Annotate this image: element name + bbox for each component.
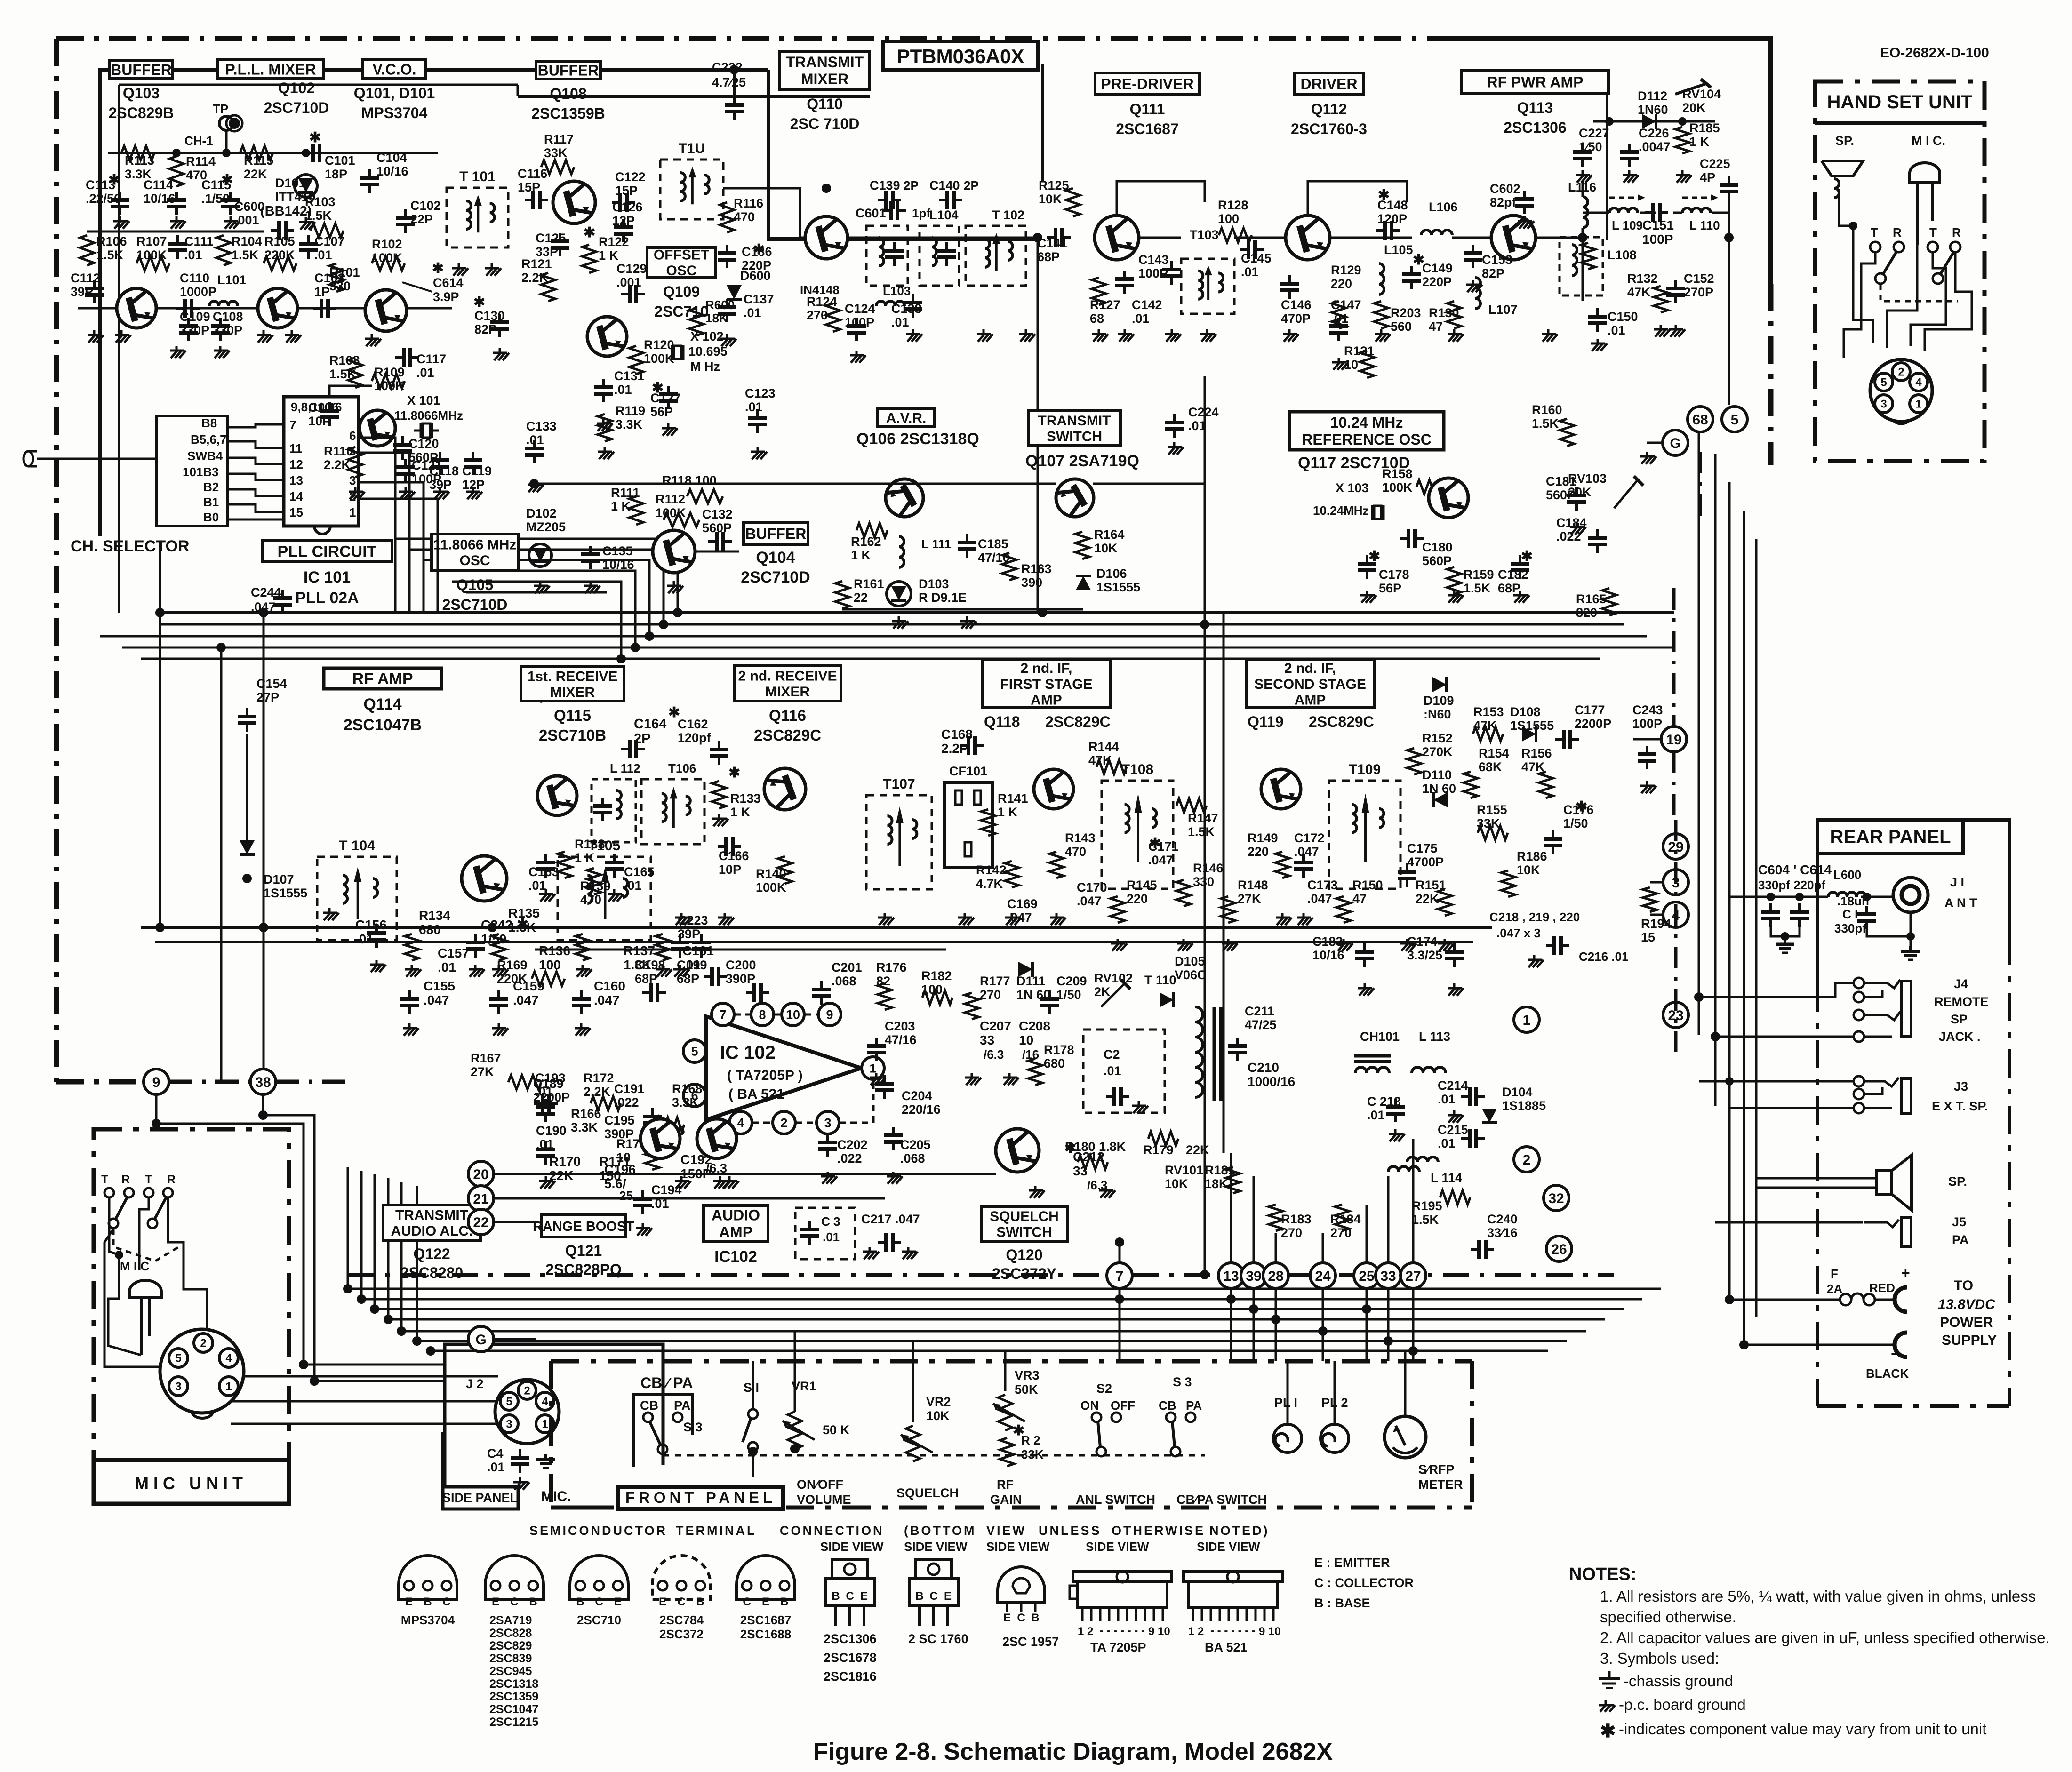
svg-text:R144: R144 [1088,740,1119,754]
label D102 [526,506,566,534]
svg-text:330P: 330P [180,323,209,337]
diode D104 [1482,1109,1497,1123]
svg-text:/6.3: /6.3 [984,1047,1004,1062]
svg-text:.01: .01 [1367,1108,1385,1122]
wire cap join [1771,925,1800,936]
terminal G [468,1326,494,1352]
svg-text:PA: PA [674,1398,691,1413]
label R171 [599,1154,631,1183]
pcb ground symbol [1599,1700,1615,1712]
svg-text:.01: .01 [614,383,632,397]
label C129 [616,262,647,289]
svg-text:T 101: T 101 [459,169,496,184]
svg-text:C: C [595,1596,603,1608]
wire pin dash7 [804,1014,818,1016]
wire rf vert [1582,181,1584,197]
junction [343,1284,352,1293]
wire r194 links [1650,882,1663,915]
label 2SC1306 group [824,1632,877,1684]
svg-text:C184: C184 [1556,516,1587,530]
wire to J4a [1699,983,1853,997]
svg-text:.047 x 3: .047 x 3 [1496,926,1541,940]
svg-text:C154: C154 [256,677,287,691]
mic capsule [129,1280,161,1355]
capacitor C155 [400,990,419,1014]
label R110 [324,444,353,472]
svg-text:R: R [121,1173,130,1186]
ground chassis [1776,939,1794,953]
label R174 [616,1137,647,1165]
ground [1466,280,1482,292]
svg-text:C153: C153 [1482,253,1512,267]
svg-text:1 K: 1 K [1689,135,1710,149]
svg-text:E : EMITTER: E : EMITTER [1314,1556,1390,1570]
resistor R111 [629,496,643,525]
svg-text:1.5K: 1.5K [96,248,124,262]
resistor R151 [1438,889,1452,916]
svg-text:100P: 100P [1642,232,1673,247]
resistor R164 [1075,532,1089,559]
junction [397,1326,406,1336]
label C121 [412,458,442,486]
wire d112 row [1593,120,1715,123]
label R108 [329,353,360,381]
junction [1115,1294,1124,1304]
wire bus [417,1340,1567,1342]
label R119 [616,404,645,431]
svg-text:7: 7 [719,1008,726,1022]
svg-text:1 2: 1 2 [1188,1625,1204,1638]
capacitor C227 [1573,144,1592,167]
svg-text:−: − [1891,1345,1900,1362]
svg-text:R167: R167 [471,1051,501,1065]
ground [115,330,131,343]
block label RANGE BOOST [533,1215,634,1278]
label C173 [1307,878,1338,906]
svg-text:.01: .01 [891,315,909,329]
svg-text:SIDE VIEW: SIDE VIEW [986,1540,1050,1554]
capacitor C184 [1588,529,1607,553]
svg-text:IC102: IC102 [714,1248,757,1266]
svg-text:R195: R195 [1412,1199,1442,1213]
svg-text:1N 60: 1N 60 [1422,782,1456,796]
wire term7 up [1119,1242,1121,1263]
svg-text:SEMICONDUCTOR: SEMICONDUCTOR [529,1524,667,1538]
ground [1111,939,1127,951]
svg-text:NOTED): NOTED) [1209,1524,1270,1538]
junction [1795,893,1804,901]
label C213 [1367,1094,1401,1122]
terminal 32 [1544,1185,1569,1211]
handset title underline [1815,121,1984,125]
svg-text:C155: C155 [424,979,455,993]
svg-text:P.L.L. MIXER: P.L.L. MIXER [225,61,316,78]
svg-text:220: 220 [1331,277,1352,291]
svg-text:2SC1760-3: 2SC1760-3 [1291,120,1367,137]
label C209 [1056,974,1087,1002]
ground [1050,913,1066,925]
capacitor C185 [958,534,976,558]
capacitor C204 [875,1075,894,1099]
svg-text:13: 13 [1223,1269,1239,1284]
junction [426,1346,435,1356]
svg-text:22K: 22K [244,167,267,181]
diode D109 [1432,677,1447,692]
svg-text:R149: R149 [1248,831,1278,845]
svg-text:R138: R138 [575,837,605,851]
svg-text:C : COLLECTOR: C : COLLECTOR [1314,1576,1414,1590]
wire chsel-ic101 [227,474,284,480]
diode D106 [1076,576,1091,590]
svg-text:R117: R117 [544,132,574,146]
svg-text:19: 19 [1666,732,1681,748]
inductor L110 [1682,208,1711,213]
pcb inner border step [768,70,1038,239]
svg-text:IC 102: IC 102 [720,1042,776,1063]
capacitor C225 [1720,176,1738,200]
svg-text:R153: R153 [1473,705,1504,719]
label R101 [329,265,360,293]
switch lever2 [154,1197,166,1220]
label C155 [424,979,455,1007]
wire mic 2 [108,1255,141,1355]
svg-text:C189: C189 [533,1077,564,1091]
junction [357,1294,366,1304]
switch contact [1870,242,1880,252]
svg-text:.01: .01 [823,1230,840,1244]
svg-text:C132: C132 [702,507,733,521]
package 2SC1687 [736,1556,795,1608]
terminal 68 [1688,407,1713,432]
wire t20 run [494,1173,996,1175]
resistor R179 [1148,1132,1178,1146]
svg-text:TO: TO [1954,1278,1973,1293]
label R148 [1238,878,1268,906]
resistor R182 [922,990,952,1005]
svg-text:10.695: 10.695 [688,344,728,359]
svg-text:C164: C164 [634,717,666,732]
svg-text:MPS3704: MPS3704 [401,1613,455,1627]
label C214 [1438,1078,1468,1106]
transistor Q119 [1261,769,1301,809]
inductor L101 [209,301,238,306]
label C199 [677,958,707,986]
label C159 [513,979,544,1007]
svg-text:L 110: L 110 [1689,218,1720,232]
resistor R161 [835,581,849,608]
capacitor C131 [594,379,613,402]
capacitor C243 [1638,746,1656,769]
label C165 [624,865,655,893]
label C168 [941,727,973,756]
terminal link dash [1674,820,1678,1052]
label C226 [1639,126,1671,154]
ground [576,965,592,977]
label R164 [1094,527,1125,555]
svg-text:J I: J I [1950,875,1964,889]
svg-text:AUDIO ALC.: AUDIO ALC. [391,1223,473,1239]
pin IC102-3 [816,1111,839,1134]
label D106 [1096,567,1140,594]
wire ic101 top [329,386,372,397]
svg-text:SECOND STAGE: SECOND STAGE [1254,677,1366,692]
label C154 [256,677,287,704]
plug positive [1895,1287,1907,1312]
svg-text:9: 9 [152,1075,160,1090]
pot VR2 [901,1426,933,1461]
switch contact [1894,242,1904,252]
transformer T103 [1181,259,1234,314]
svg-text:9 10: 9 10 [1259,1625,1281,1638]
resistor R139 [587,868,601,894]
svg-text:SIDE VIEW: SIDE VIEW [820,1540,884,1554]
svg-text:12: 12 [289,457,303,471]
svg-text:100K: 100K [1382,480,1413,495]
svg-text:2200P: 2200P [1575,717,1611,731]
capacitor C244 [273,590,292,613]
wire pin dash5 [734,1014,751,1016]
wire to SP2 [1756,1187,1877,1189]
wire receive bottom rail [141,926,1492,929]
svg-text:2SC1816: 2SC1816 [824,1669,877,1684]
label C227 [1579,126,1609,154]
svg-text:68P: 68P [635,972,657,986]
svg-text:.047: .047 [1077,894,1102,908]
label R124 [807,295,837,322]
ground [170,346,186,358]
svg-text:2SC1047: 2SC1047 [489,1703,538,1716]
svg-text:.01: .01 [438,960,456,974]
svg-text:MIXER: MIXER [801,71,848,88]
junction [822,184,831,193]
transistor Q107 [1056,479,1094,517]
svg-text:5: 5 [506,1396,512,1408]
ground [850,351,866,363]
svg-text:680: 680 [1044,1056,1065,1070]
junction [1724,233,1734,242]
ground [1099,1186,1115,1198]
svg-text:.047: .047 [1148,853,1173,867]
svg-text:C177: C177 [1575,703,1605,717]
svg-text:C190: C190 [536,1124,567,1138]
block label 2nd IF FIRST STAGE AMP [983,660,1110,708]
svg-text:M Hz: M Hz [690,359,720,374]
capacitor C600 [271,221,294,240]
transistor Q122 [640,1119,680,1158]
capacitor C108 [211,318,230,341]
side panel label box [442,1487,518,1509]
pin 4 [219,1349,238,1367]
ground [821,1172,837,1184]
wire q111 out [1139,237,1181,239]
wire q110 base [723,188,805,238]
ground [469,965,485,977]
svg-text:330pf 220pf: 330pf 220pf [1758,878,1825,892]
svg-text:330P: 330P [213,323,242,337]
svg-text:5: 5 [349,444,356,458]
svg-text:CB: CB [1159,1398,1176,1413]
label R132 [1627,271,1658,299]
handset mic [1910,163,1940,245]
label R129 [1331,263,1361,291]
capacitor C199 [704,967,727,986]
mic unit border [94,1129,289,1504]
junction [1115,1237,1124,1247]
resistor R194 [1643,887,1657,912]
svg-text:B: B [915,1590,923,1603]
switch S2 [1092,1413,1121,1456]
ground [906,329,922,342]
resistor R176 [878,983,892,1010]
label C191 [614,1082,645,1109]
svg-text:2SC1047B: 2SC1047B [344,716,422,734]
resistor R162 [856,523,888,537]
label R122 [599,235,629,263]
svg-text:C146: C146 [1281,298,1312,312]
svg-text:D112: D112 [1638,89,1667,103]
wire vert avr [1037,239,1039,613]
ground [977,329,993,342]
capacitor C602 [1515,191,1534,214]
resistor R130 [1447,301,1461,328]
svg-text:C205: C205 [900,1138,931,1152]
resistor R169 [532,972,565,986]
svg-text:B: B [529,1596,537,1608]
svg-text:R185: R185 [1689,121,1720,135]
svg-text:Q101, D101: Q101, D101 [354,85,435,102]
label C4 [487,1446,505,1474]
pcb inner border right [1041,64,1044,181]
label S/RFP METER [1418,1462,1463,1492]
block label TRANSMIT MIXER [780,51,870,132]
svg-text:T103: T103 [1190,228,1219,242]
svg-text:C169: C169 [1007,897,1038,911]
svg-text:Q118: Q118 [984,713,1020,730]
svg-text:AMP: AMP [1031,692,1062,708]
svg-text:PLL CIRCUIT: PLL CIRCUIT [278,543,377,561]
svg-text:39: 39 [1246,1269,1261,1284]
svg-text:C203: C203 [885,1019,915,1033]
label C108 [213,310,243,337]
wire mid dist [534,483,814,485]
block label P.L.L. MIXER Q102 [217,60,324,79]
label R136 [539,943,570,972]
ground [870,1073,886,1085]
wire bus [348,1288,1661,1290]
inductor L600 [1828,892,1866,897]
wire mic 3 [139,1198,149,1270]
wire rf out top [1583,181,1729,182]
pin IC102-6 [683,1084,706,1107]
transistor Q108 [553,181,595,223]
junction [172,149,181,157]
svg-text:47/25: 47/25 [1245,1018,1277,1032]
wire mid rail [87,231,264,233]
svg-text:Q103: Q103 [123,85,160,102]
svg-text:13: 13 [289,473,303,487]
svg-text:C4: C4 [487,1446,504,1461]
svg-text:2SC1687: 2SC1687 [740,1613,791,1627]
block label RF PWR AMP [1462,71,1608,136]
wire vert bundle [416,1186,418,1341]
plug negative [1895,1333,1907,1357]
ground [1438,939,1454,951]
svg-text:33∕16: 33∕16 [1487,1226,1518,1240]
wire tx rail [600,188,723,189]
svg-text:2SC710D: 2SC710D [264,99,329,116]
svg-text:R129: R129 [1331,263,1361,277]
svg-text:FIRST STAGE: FIRST STAGE [1000,677,1092,692]
ground [528,480,544,492]
transformer T101 [447,169,508,247]
label X102 [688,329,728,374]
svg-text:R176: R176 [876,960,907,974]
terminal 38 [250,1069,276,1094]
svg-text:B: B [576,1596,584,1608]
label R116 [734,196,763,224]
label C176 [1563,803,1594,830]
transistor Q114 [462,856,507,901]
svg-text:.01: .01 [416,366,434,380]
svg-text:C I: C I [1842,907,1858,921]
wire l106 out [1452,237,1491,239]
wire term down [1366,1288,1368,1361]
svg-text:R104: R104 [232,234,262,248]
junction [1725,1295,1734,1304]
ground [466,487,482,499]
ground [1200,329,1216,342]
svg-text:M I C.: M I C. [1912,134,1945,148]
label C114 [144,178,176,206]
svg-text:R113: R113 [125,153,154,168]
label R134 [419,908,450,937]
pin 1 [536,1415,554,1433]
wire t22 run [494,1221,536,1223]
wire rail pll4 [438,571,635,647]
svg-text:DRIVER: DRIVER [1301,76,1358,93]
svg-text:C156: C156 [355,918,387,932]
svg-text:C102: C102 [410,199,441,213]
label C113 [86,178,121,206]
ground [513,1477,529,1490]
wire vert [263,613,265,1082]
label R176 [876,960,907,988]
inductor L111 [899,536,904,567]
ground [720,334,736,346]
junction [1362,1304,1371,1314]
ground [656,965,672,977]
capacitor C601b [882,201,906,220]
svg-text:C122: C122 [615,170,646,184]
mic connector [160,1329,244,1413]
terminal 3 [1663,870,1688,895]
svg-text:SQUELCH: SQUELCH [990,1209,1059,1224]
svg-text:REMOTE: REMOTE [1934,995,1989,1009]
wire rail pll3 [424,560,649,636]
choke CH101 [1354,1056,1391,1073]
svg-text:4: 4 [225,1352,232,1365]
wire bus [388,1318,1605,1321]
resistor R600 [689,308,704,335]
wire rail pll6 [466,591,607,594]
label D103 [919,577,967,605]
wire term down [1253,1288,1255,1361]
svg-text:C147: C147 [1331,298,1361,312]
wire top dist2 [119,84,518,86]
transformer T105 [558,838,651,940]
ground [636,1223,652,1236]
inductor tank L104 [866,226,908,286]
